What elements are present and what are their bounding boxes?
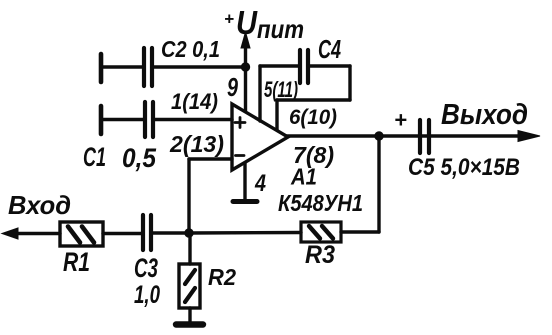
- svg-text:К548УН1: К548УН1: [278, 190, 363, 216]
- capacitor C2: [101, 48, 245, 86]
- svg-text:5(11): 5(11): [264, 77, 298, 102]
- svg-text:1,0: 1,0: [134, 281, 160, 309]
- wire node to R2: [188, 233, 191, 264]
- wire power rail to op-amp pin 9: [244, 67, 247, 111]
- power arrow +Uпит: [241, 32, 250, 68]
- capacitor C4: [260, 50, 350, 83]
- wire feedback from output node: [377, 136, 380, 232]
- svg-text:А1: А1: [290, 164, 317, 190]
- resistor R3: [189, 222, 379, 242]
- capacitor C5: [420, 120, 429, 153]
- svg-text:Выход: Выход: [441, 99, 528, 131]
- wire C4 loop to pin 6(10): [277, 66, 350, 130]
- svg-text:C2 0,1: C2 0,1: [161, 36, 220, 62]
- svg-text:9: 9: [227, 72, 238, 102]
- svg-text:6(10): 6(10): [289, 106, 337, 129]
- svg-text:C3: C3: [134, 253, 158, 283]
- junction output/feedback: [375, 132, 383, 140]
- svg-text:C5 5,0×15В: C5 5,0×15В: [408, 154, 520, 181]
- input arrow: [2, 228, 18, 239]
- capacitor C1: [101, 102, 232, 137]
- svg-text:R2: R2: [208, 264, 236, 290]
- capacitor C3: [103, 215, 189, 250]
- svg-text:пит: пит: [257, 14, 304, 44]
- svg-text:C1: C1: [83, 142, 106, 172]
- svg-text:+: +: [224, 10, 234, 29]
- svg-text:2(13): 2(13): [169, 131, 224, 157]
- op-amp U1 triangle: [232, 104, 288, 170]
- junction power/C2: [241, 63, 249, 71]
- wire op-amp pin 4: [243, 163, 246, 200]
- wire op-amp output 7(8): [286, 134, 521, 137]
- svg-text:U: U: [236, 4, 258, 41]
- resistor R2: [179, 264, 200, 323]
- op-amp + input mark: [235, 118, 245, 128]
- svg-text:+: +: [394, 108, 407, 133]
- svg-text:0,5: 0,5: [122, 143, 157, 173]
- svg-text:4: 4: [254, 170, 266, 197]
- ground R2: [176, 321, 203, 327]
- wire pin 5(11) riser: [258, 66, 261, 121]
- wire inverting input 2(13): [189, 159, 232, 233]
- resistor R1: [16, 222, 103, 246]
- label +Uпит: [224, 4, 304, 44]
- op-amp - input mark: [236, 154, 245, 157]
- junction input node: [185, 229, 193, 237]
- ground pin 4: [233, 199, 257, 204]
- svg-text:1(14): 1(14): [171, 89, 218, 114]
- svg-text:R3: R3: [305, 241, 335, 269]
- svg-text:Вход: Вход: [8, 190, 71, 220]
- svg-text:C4: C4: [318, 34, 341, 64]
- svg-text:R1: R1: [63, 247, 90, 277]
- output arrow: [518, 131, 540, 142]
